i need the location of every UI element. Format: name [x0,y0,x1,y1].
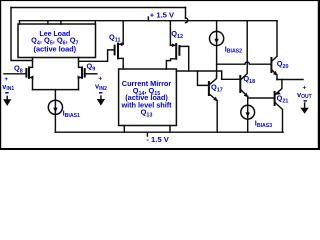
tail wire Q8/Q9 sources [33,89,79,91]
current source IBIAS2 [210,21,243,55]
transistor Q11 [79,21,124,69]
svg-text:+: + [302,85,306,92]
input vIN1 with ground [2,76,14,106]
node +1.5V label [148,10,175,20]
junction hop at 185.5,20.7 [186,18,188,23]
svg-text:(active load): (active load) [34,44,77,53]
current source IBIAS1 [48,100,80,119]
border frame [0,0,320,150]
transistor Q9 [78,58,97,90]
wire IBIAS3 to rail [247,119,249,132]
wire Q18 emitter to IBIAS3 [247,98,249,105]
Lee load box stubs [20,21,96,24]
wire box to Q17 base [198,71,209,85]
wire IBIAS1 to rail [54,114,56,132]
transistor Q17 [209,76,223,132]
bottom -1.5V rail [55,131,283,133]
wire tail to IBIAS1 [54,90,56,101]
svg-text:+ 1.5 V: + 1.5 V [150,10,175,19]
wire Q18 emitter to Q21 base [248,96,275,98]
current source IBIAS3 [241,105,272,129]
wire box to output stage [176,71,240,79]
transistor Q18 [240,21,255,98]
wire left supply drop to Q8 drain [11,8,33,61]
wire box bottom stubs to rail [124,126,170,133]
wire IBIAS2 to Q17 collector [216,46,218,76]
current mirror box Q13 Q14 Q15 [119,69,177,126]
transistor Q12 [166,21,188,71]
+1.5V rail top [11,7,186,9]
wire right supply drop [185,8,187,19]
output wire Q20 emitter [277,79,303,81]
input vIN2 with ground [95,76,107,106]
Lee Load box Q4 Q5 Q6 Q7 [18,24,96,58]
wire Q20 base with hop over Q18 collector [217,62,271,64]
node -1.5V label [146,132,169,144]
transistor Q20 [271,21,288,80]
svg-text:- 1.5 V: - 1.5 V [146,135,169,144]
transistor Q8 [4,58,33,90]
+1.5V rail 2 [20,20,278,22]
output vOUT with ground [297,85,312,114]
transistor Q21 [275,80,289,133]
